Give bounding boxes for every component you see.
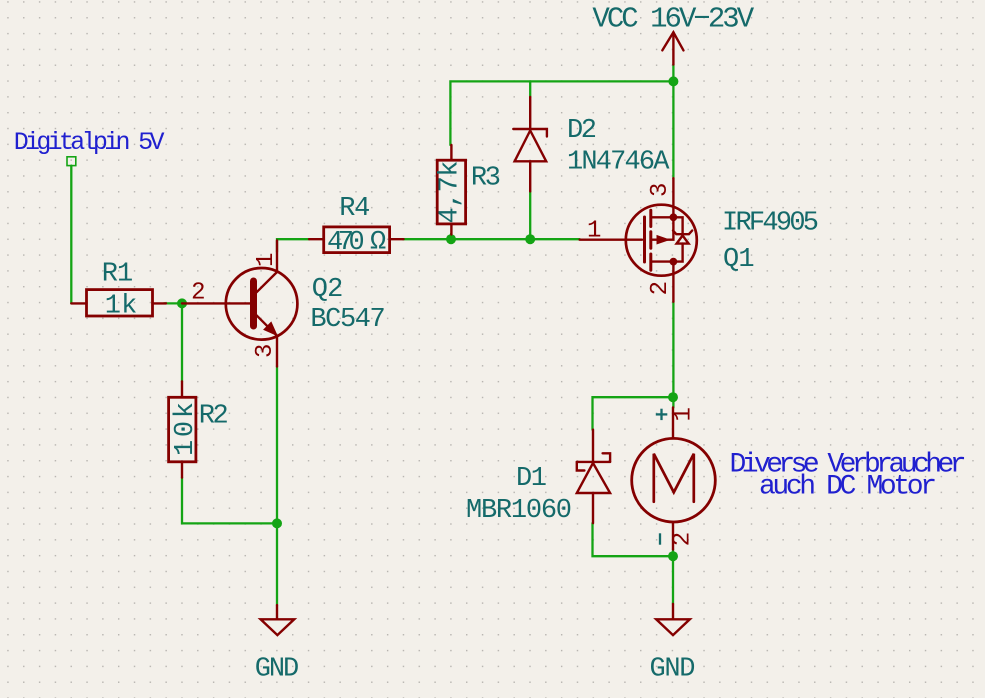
svg-text:10k: 10k	[171, 402, 201, 456]
svg-text:R2: R2	[199, 402, 229, 432]
svg-text:1: 1	[671, 407, 698, 421]
svg-text:2: 2	[191, 280, 205, 307]
svg-text:R1: R1	[102, 260, 133, 290]
svg-text:1N4746A: 1N4746A	[567, 148, 670, 178]
svg-text:MBR1060: MBR1060	[466, 496, 572, 526]
svg-text:Digitalpin 5V: Digitalpin 5V	[14, 128, 165, 157]
svg-text:3: 3	[252, 344, 279, 358]
svg-text:BC547: BC547	[310, 305, 385, 335]
svg-text:GND: GND	[255, 655, 300, 685]
svg-text:D2: D2	[567, 116, 597, 146]
svg-text:D1: D1	[516, 464, 547, 494]
svg-text:2: 2	[647, 281, 674, 295]
svg-text:GND: GND	[650, 655, 696, 685]
svg-text:4,7k: 4,7k	[436, 161, 466, 224]
svg-text:470 Ω: 470 Ω	[327, 228, 386, 258]
svg-text:1: 1	[253, 253, 280, 267]
svg-text:R3: R3	[471, 164, 501, 194]
svg-text:1k: 1k	[105, 292, 138, 322]
svg-text:Q1: Q1	[723, 245, 755, 275]
svg-text:3: 3	[647, 183, 674, 197]
svg-text:IRF4905: IRF4905	[722, 209, 819, 239]
svg-text:VCC 16V−23V: VCC 16V−23V	[592, 3, 754, 36]
svg-text:Q2: Q2	[312, 275, 344, 305]
svg-text:1: 1	[587, 218, 601, 245]
svg-text:R4: R4	[339, 194, 370, 224]
svg-text:2: 2	[670, 532, 697, 546]
svg-text:auch DC Motor: auch DC Motor	[759, 471, 937, 502]
